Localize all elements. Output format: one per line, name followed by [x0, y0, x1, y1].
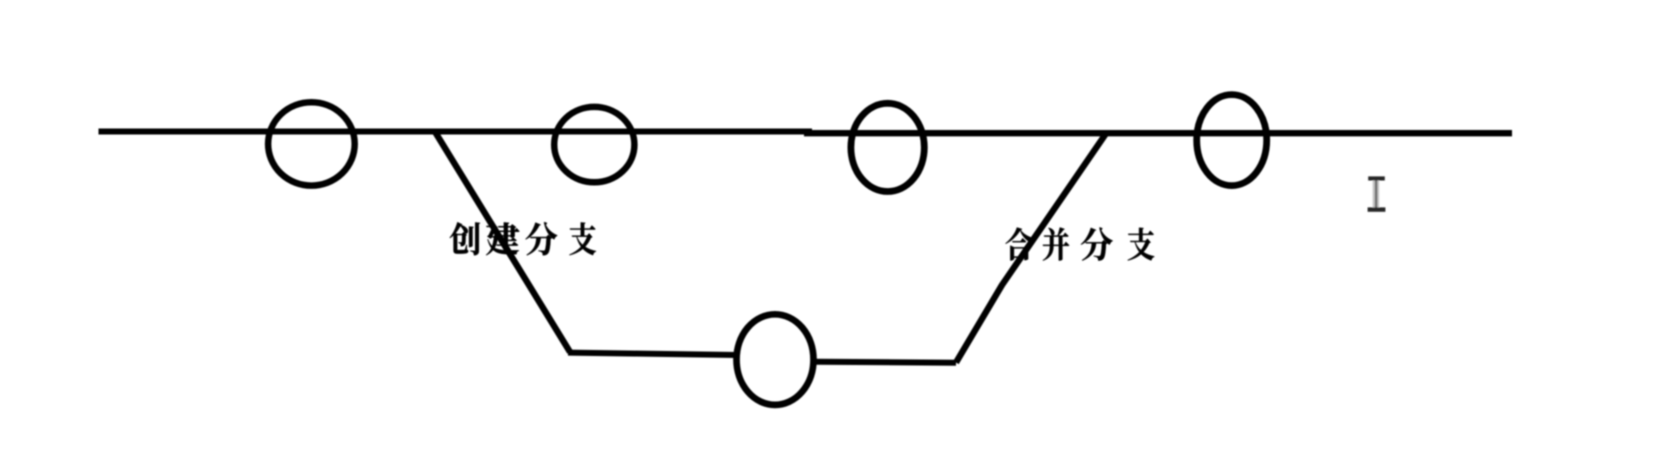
- cursor: text-select I-beam mouse pointer: [1368, 176, 1386, 211]
- wire: feature branch lower line, left of commit: [568, 353, 737, 355]
- label &quot;合并分支&quot; char 4 (支): [1128, 228, 1155, 261]
- wire: feature branch lower line, right of commit: [816, 362, 956, 363]
- label &quot;合并分支&quot; char 2 (并): [1043, 227, 1069, 260]
- label &quot;创建分支&quot; char 3 (分): [525, 222, 557, 255]
- label &quot;创建分支&quot; char 4 (支): [569, 222, 596, 255]
- label &quot;合并分支&quot; char 3 (分): [1081, 227, 1113, 260]
- node: commit circle 3 on master: [851, 103, 924, 191]
- wire: master branch main line, right segment: [804, 130, 1512, 136]
- wire: master branch main line, left segment: [99, 128, 813, 134]
- wire: merge-back diagonal (merge branch): [956, 134, 1106, 363]
- node: commit circle 4 on master: [1197, 95, 1267, 186]
- label &quot;创建分支&quot; char 1 (创): [450, 222, 480, 255]
- node: commit circle 2 on master: [554, 107, 634, 182]
- label &quot;合并分支&quot; char 1 (合): [1005, 228, 1032, 261]
- node: commit circle 1 on master: [268, 102, 355, 185]
- wire: branch-out diagonal (create branch): [435, 131, 571, 352]
- node: commit circle 5 on feature branch: [737, 314, 814, 405]
- label &quot;创建分支&quot; char 2 (建): [486, 222, 519, 255]
